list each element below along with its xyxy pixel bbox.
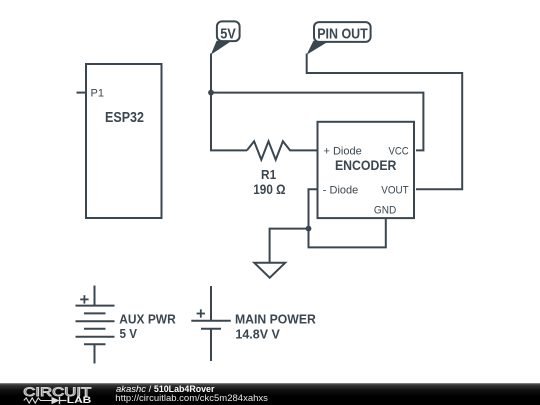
svg-text:AUX PWR: AUX PWR bbox=[119, 312, 176, 327]
value label 14.8V V bbox=[235, 326, 280, 341]
svg-text:http://circuitlab.com/ckc5m284: http://circuitlab.com/ckc5m284xahxs bbox=[115, 393, 268, 404]
pin VOUT bbox=[381, 184, 409, 196]
svg-text:VOUT: VOUT bbox=[381, 184, 409, 196]
svg-text:+ Diode: + Diode bbox=[324, 146, 362, 158]
wire node A down to resistor bbox=[211, 92, 247, 151]
net flag PIN OUT bbox=[307, 22, 371, 55]
svg-text:P1: P1 bbox=[91, 87, 104, 99]
footer credit text bbox=[115, 384, 268, 404]
svg-text:14.8V V: 14.8V V bbox=[235, 326, 280, 341]
svg-text:PIN OUT: PIN OUT bbox=[317, 26, 368, 43]
junction node A bbox=[208, 90, 214, 96]
pin - Diode bbox=[323, 184, 358, 196]
wire PIN OUT to VOUT bbox=[307, 54, 463, 190]
label R1 bbox=[261, 167, 276, 182]
svg-text:R1: R1 bbox=[261, 167, 276, 182]
label AUX PWR bbox=[119, 312, 176, 327]
battery AUX PWR bbox=[76, 286, 115, 364]
footer bar bbox=[0, 383, 540, 405]
svg-text:ESP32: ESP32 bbox=[105, 110, 144, 126]
pin VCC bbox=[389, 146, 409, 158]
wire 5V stem bbox=[210, 54, 212, 93]
pin P1 of ESP32 bbox=[77, 87, 104, 99]
CircuitLab logo bbox=[23, 385, 91, 405]
svg-text:ENCODER: ENCODER bbox=[335, 157, 397, 173]
label MAIN POWER bbox=[235, 311, 316, 326]
junction node B bbox=[306, 226, 312, 232]
battery MAIN POWER bbox=[191, 286, 231, 361]
net flag 5V bbox=[211, 21, 240, 54]
svg-text:5V: 5V bbox=[220, 27, 236, 43]
pin + Diode bbox=[324, 146, 362, 158]
svg-text:GND: GND bbox=[374, 205, 396, 217]
value label 190 ohm bbox=[253, 181, 285, 197]
svg-text:- Diode: - Diode bbox=[323, 184, 358, 196]
IC ENCODER bbox=[318, 122, 415, 218]
svg-text:5 V: 5 V bbox=[120, 326, 138, 341]
wire node A to VCC bbox=[211, 93, 423, 151]
value label 5 V bbox=[120, 326, 138, 341]
IC ESP32 bbox=[86, 64, 162, 218]
polarity plus of MAIN POWER bbox=[197, 309, 205, 317]
resistor R1 bbox=[247, 141, 318, 160]
svg-text:LAB: LAB bbox=[67, 395, 92, 405]
svg-text:190 Ω: 190 Ω bbox=[253, 181, 285, 197]
svg-text:MAIN POWER: MAIN POWER bbox=[235, 311, 316, 326]
polarity plus of AUX PWR bbox=[80, 295, 88, 303]
ground bbox=[254, 263, 285, 278]
wire node B to ground bbox=[270, 229, 309, 263]
pin GND bbox=[374, 205, 396, 217]
wire - Diode to GND pin bbox=[309, 189, 386, 247]
svg-text:VCC: VCC bbox=[389, 146, 409, 158]
